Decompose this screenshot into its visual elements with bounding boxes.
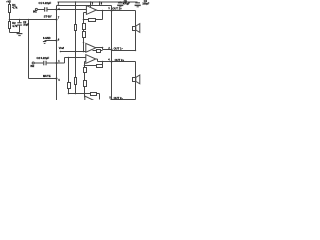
svg-text:100µF: 100µF — [142, 3, 149, 6]
svg-text:1: 1 — [108, 7, 110, 10]
svg-text:MUTE: MUTE — [43, 74, 51, 78]
svg-text:470µF: 470µF — [123, 3, 130, 6]
svg-text:8: 8 — [101, 2, 103, 5]
svg-text:ST-BY: ST-BY — [44, 14, 52, 18]
svg-text:4.7k: 4.7k — [12, 24, 18, 28]
svg-text:10µF: 10µF — [23, 23, 29, 26]
svg-text:OUT 2+: OUT 2+ — [115, 58, 125, 62]
svg-text:6-GND: 6-GND — [43, 37, 51, 40]
svg-text:IN1: IN1 — [33, 10, 37, 13]
svg-text:7: 7 — [58, 16, 60, 19]
svg-text:6: 6 — [58, 38, 60, 41]
svg-text:3: 3 — [92, 2, 94, 5]
svg-text:OUT 1–: OUT 1– — [114, 47, 124, 51]
svg-text:C2 0.22µF: C2 0.22µF — [37, 56, 50, 60]
svg-text:OUT 2–: OUT 2– — [114, 96, 124, 100]
svg-text:5: 5 — [58, 79, 60, 82]
svg-text:+VS: +VS — [6, 1, 11, 4]
svg-text:4: 4 — [108, 58, 110, 61]
svg-text:IN2: IN2 — [31, 65, 35, 68]
svg-text:OUT 1+: OUT 1+ — [112, 7, 122, 11]
svg-text:C1 0.22µF: C1 0.22µF — [39, 1, 52, 5]
svg-text:4.7k: 4.7k — [12, 6, 18, 10]
svg-text:Vref: Vref — [59, 46, 64, 50]
